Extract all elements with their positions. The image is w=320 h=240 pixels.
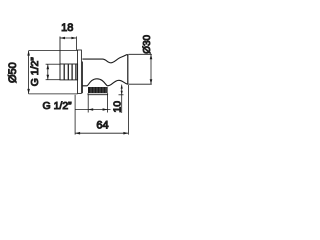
outlet nipple bottom rim <box>88 93 108 95</box>
svg-text:Ø50: Ø50 <box>7 62 19 83</box>
dimension Ø50: dim line <box>28 51 30 94</box>
thread pipe hatching <box>64 64 76 79</box>
svg-text:G 1/2”: G 1/2” <box>29 57 41 87</box>
dimension G1/2 pipe: bottom arrow <box>47 75 50 80</box>
dimension Ø30: dim line <box>150 54 152 84</box>
dimension G1/2 pipe: dim line <box>47 64 49 80</box>
dimension 64: left extension line <box>74 95 76 135</box>
dimension Ø30: top extension line <box>128 53 151 55</box>
svg-text:18: 18 <box>61 22 73 34</box>
dimension 18: right arrow <box>71 37 76 40</box>
dimension 64: right arrow <box>123 132 128 135</box>
holder body bottom profile with outlet dome and waist bump <box>82 79 127 86</box>
svg-text:10: 10 <box>112 101 124 113</box>
dimension 10: dim line <box>121 85 123 113</box>
dimension 64: right extension line <box>127 85 129 135</box>
dimension Ø50: bottom extension line <box>29 93 78 95</box>
dimension G1/2 pipe: top arrow <box>47 64 50 69</box>
wire: wall / left extension line x=60 <box>59 37 61 80</box>
dimension 18 top: dim line <box>60 37 76 39</box>
dimension G1/2 outlet: dim line <box>76 109 111 111</box>
dimension G1/2 outlet: left extension line <box>87 95 89 113</box>
svg-text:G 1/2”: G 1/2” <box>43 100 73 112</box>
knob face Ø30 <box>127 55 129 85</box>
dimension 64: dim line <box>75 132 128 134</box>
dimension 18: left arrow <box>60 37 65 40</box>
dimension 10: bottom extension tick <box>119 94 124 96</box>
dimension 10: bottom arrow <box>121 91 123 95</box>
dimension G1/2 pipe: bottom extension line <box>46 79 60 81</box>
dimension Ø30: top arrow <box>150 54 153 59</box>
escutcheon disc (side view) <box>78 50 82 93</box>
dimension 18: right extension line <box>75 37 77 51</box>
dimension G1/2 pipe: top extension line <box>46 63 60 65</box>
dimension G1/2 outlet: left arrow <box>88 108 93 111</box>
dimension G1/2 outlet: right extension line <box>107 95 109 113</box>
dimension 10: top arrow <box>121 85 123 89</box>
outlet nipple knurled band <box>88 87 108 93</box>
dimension 64: left arrow <box>75 132 80 135</box>
thread pipe G1/2 outline <box>60 64 78 80</box>
dimension Ø50: top arrow <box>27 51 30 56</box>
svg-text:Ø30: Ø30 <box>142 34 153 53</box>
dimension G1/2 outlet: right arrow <box>103 108 108 111</box>
body back step line <box>81 62 83 94</box>
dimension Ø30: bottom extension line <box>128 83 151 85</box>
dimension Ø30: bottom arrow <box>150 79 153 84</box>
dimension Ø50: bottom arrow <box>27 89 30 94</box>
svg-text:64: 64 <box>96 120 108 132</box>
holder body top profile <box>82 55 127 63</box>
dimension Ø50: top extension line <box>29 50 78 52</box>
